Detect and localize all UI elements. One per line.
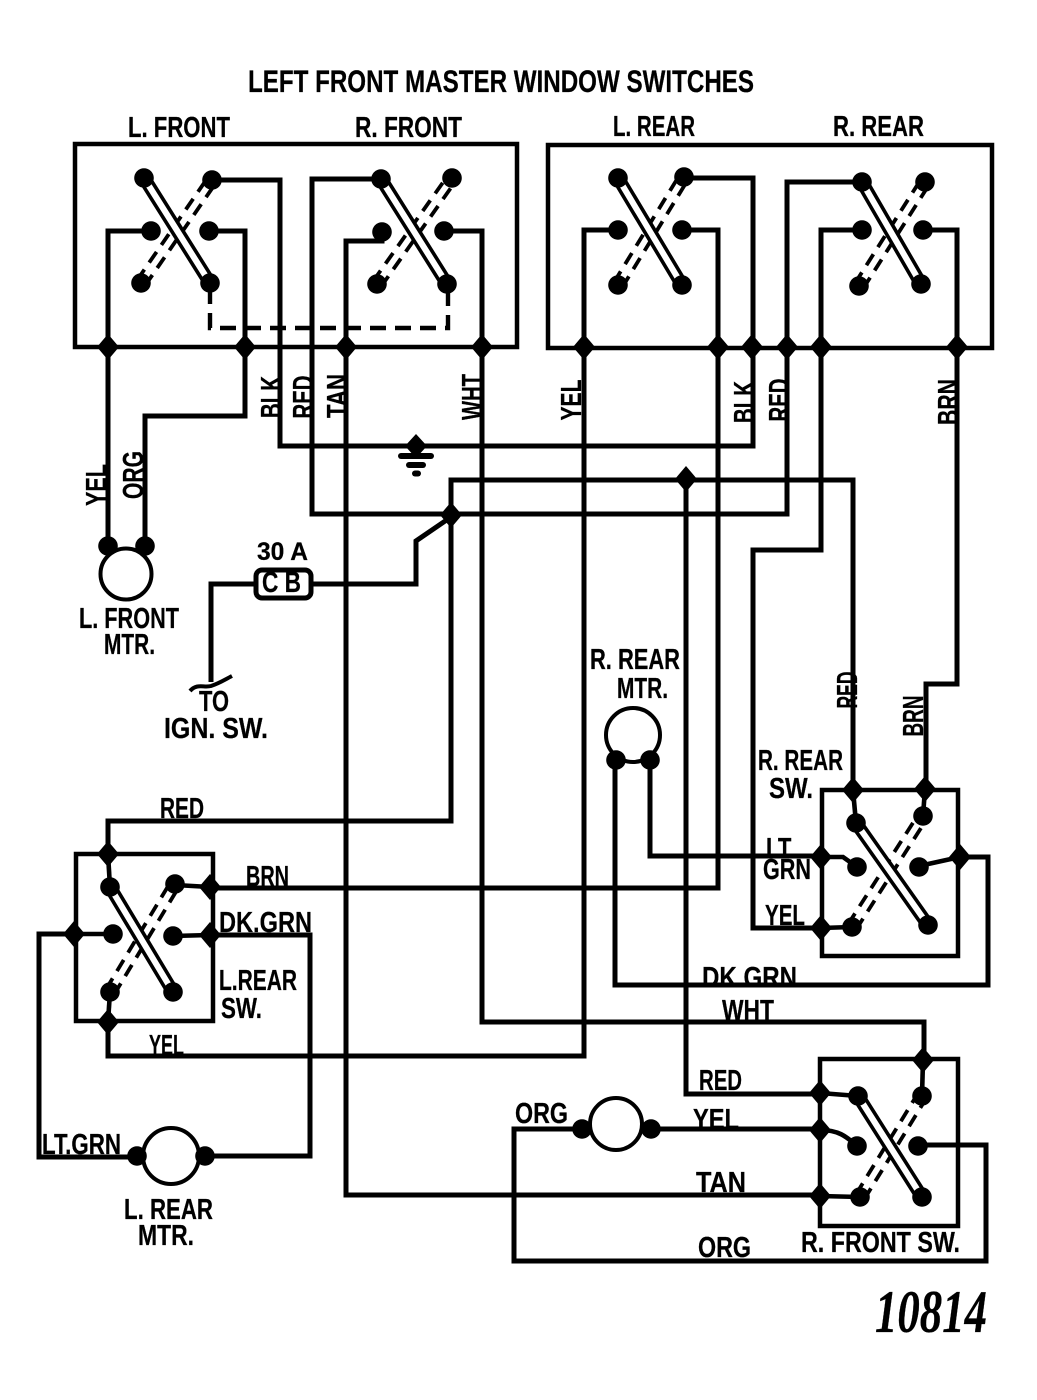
node RED junction at CB <box>440 502 462 528</box>
node L.REAR SW node LT.GRN <box>63 921 85 947</box>
svg-text:R. REAR: R. REAR <box>590 643 680 675</box>
svg-text:L. FRONT: L. FRONT <box>128 112 230 144</box>
svg-text:DK.GRN: DK.GRN <box>219 906 312 938</box>
circuit breaker CB 30A <box>256 567 311 599</box>
wire YEL (R.REAR ML to R.REAR SW BL) <box>753 230 862 928</box>
node L.REAR SW node BRN <box>199 874 221 900</box>
wire CB output to RED junction <box>311 517 451 584</box>
node R.FRONT SW node RED <box>809 1080 831 1106</box>
svg-text:R. REAR: R. REAR <box>833 111 924 143</box>
master switch box (front) <box>75 144 517 347</box>
wire BLK (L.FRONT TR to L.REAR TR via ground run) <box>212 178 753 446</box>
wire YEL (L.REAR ML to L.REAR SW bottom) <box>108 230 618 1056</box>
wire ORG (front motor loop to R.FRONT SW MR) <box>514 1129 986 1261</box>
switch R.REAR <box>849 172 935 296</box>
wire BRN (L.REAR MR to L.REAR SW TR) <box>210 230 718 888</box>
wire stub YEL to R.REAR SW BL <box>821 927 852 928</box>
wire WHT (R.FRONT MR down to R.FRONT SW) <box>444 231 924 1062</box>
switch L.FRONT <box>131 168 222 293</box>
motor R.REAR MTR <box>606 708 660 770</box>
node R.REAR SW node YEL <box>810 915 832 941</box>
wire BRN (R.REAR MR to R.REAR SW TR) <box>923 230 957 790</box>
svg-text:L. REAR: L. REAR <box>613 111 695 143</box>
svg-text:BRN: BRN <box>932 379 964 425</box>
wire RED branch (junction to L.REAR SW TL) <box>108 514 451 856</box>
wire stub RED to R.FRONT SW TL <box>820 1093 858 1096</box>
wire stub DK.GRN to L.REAR SW MR <box>173 935 210 936</box>
node rear rail BRN <box>707 334 729 360</box>
node R.REAR SW node BRN <box>914 776 936 802</box>
node rear rail BLK <box>741 334 763 360</box>
svg-text:C B: C B <box>262 567 301 599</box>
svg-text:MTR.: MTR. <box>617 672 668 704</box>
wire stub DK.GRN to R.REAR SW MR <box>919 857 960 866</box>
svg-text:ORG: ORG <box>117 451 149 499</box>
svg-text:LEFT FRONT MASTER WINDOW SWITC: LEFT FRONT MASTER WINDOW SWITCHES <box>248 63 754 99</box>
node R.FRONT SW node TAN <box>809 1183 831 1209</box>
svg-text:GRN: GRN <box>763 853 811 885</box>
svg-text:SW.: SW. <box>769 772 813 804</box>
node front rail TAN <box>335 334 357 360</box>
wire stub RED to L.REAR SW TL <box>108 854 110 887</box>
node rear rail YEL2 <box>810 334 832 360</box>
wire stub LT.GRN to R.REAR SW ML <box>821 857 857 867</box>
node L.FRONT rail ORG <box>234 334 256 360</box>
svg-text:MTR.: MTR. <box>104 628 155 660</box>
node L.REAR SW node RED <box>97 841 119 867</box>
wire stub WHT to R.FRONT SW TR <box>922 1060 923 1096</box>
ignition wire break squiggle <box>190 676 232 691</box>
wire stub YEL to R.FRONT SW ML <box>820 1130 857 1146</box>
wire feed from ignition switch to CB <box>211 584 256 682</box>
wire stub BRN to L.REAR SW TR <box>175 885 210 887</box>
svg-text:DK.GRN: DK.GRN <box>702 961 797 993</box>
svg-text:R. FRONT: R. FRONT <box>355 112 462 144</box>
svg-text:RED: RED <box>287 376 319 419</box>
switch L.REAR SW (door) <box>100 874 185 1002</box>
svg-text:BLK: BLK <box>728 381 760 423</box>
node L.FRONT rail YEL <box>97 334 119 360</box>
svg-text:YEL: YEL <box>80 464 112 506</box>
svg-text:ORG: ORG <box>515 1097 568 1129</box>
wire RED power (junction up and across to R.REAR SW TL) <box>451 480 853 792</box>
node R.FRONT SW node WHT <box>912 1047 934 1073</box>
node rear rail YEL <box>573 334 595 360</box>
wire TAN (R.FRONT ML down to R.FRONT SW) <box>346 232 820 1195</box>
node rear rail RED <box>776 334 798 360</box>
svg-text:YEL: YEL <box>765 899 805 931</box>
wire stub YEL to L.REAR SW BL <box>108 992 110 1022</box>
svg-text:BLK: BLK <box>255 376 287 418</box>
svg-text:WHT: WHT <box>722 994 774 1026</box>
L.REAR SW box <box>76 854 213 1021</box>
svg-text:ORG: ORG <box>698 1231 751 1263</box>
svg-text:YEL: YEL <box>693 1103 739 1135</box>
node R.FRONT SW node YEL <box>809 1117 831 1143</box>
svg-text:MTR.: MTR. <box>138 1219 194 1251</box>
wire YEL (L.FRONT ML to L.FRONT MTR) <box>108 231 151 548</box>
wire DK.GRN (R.REAR MTR to R.REAR SW MR) <box>615 758 988 985</box>
svg-text:30 A: 30 A <box>257 539 308 566</box>
svg-text:R. FRONT SW.: R. FRONT SW. <box>801 1226 960 1258</box>
svg-text:WHT: WHT <box>456 374 488 420</box>
master switch box (rear) <box>548 145 992 348</box>
R.FRONT SW box <box>820 1059 958 1226</box>
svg-text:TAN: TAN <box>321 374 353 418</box>
motor R.FRONT MTR <box>572 1098 661 1150</box>
svg-text:10814: 10814 <box>875 1279 987 1346</box>
wire LT.GRN (L.REAR SW ML to L.REAR MTR) <box>39 934 139 1157</box>
motor L.FRONT MTR <box>98 536 155 599</box>
svg-text:RED: RED <box>831 672 863 709</box>
node RED junction branch <box>675 466 697 492</box>
svg-text:YEL: YEL <box>149 1029 184 1061</box>
wire dashed coupler (L.FRONT BR to R.FRONT BR) <box>210 288 448 328</box>
node R.REAR SW node LT.GRN <box>810 844 832 870</box>
svg-text:YEL: YEL <box>555 380 587 421</box>
svg-text:SW.: SW. <box>221 992 262 1024</box>
motor L.REAR MTR <box>127 1128 215 1184</box>
svg-text:RED: RED <box>763 379 795 422</box>
wire stub TAN to R.FRONT SW BL <box>820 1196 860 1197</box>
switch R.FRONT <box>367 168 462 294</box>
svg-text:BRN: BRN <box>897 696 929 737</box>
wire YEL (front motor to R.FRONT SW) <box>650 1127 820 1132</box>
wire ORG (L.FRONT MR to L.FRONT MTR) <box>145 231 245 548</box>
node front rail WHT <box>471 334 493 360</box>
wire LT.GRN (R.REAR MTR to R.REAR SW ML) <box>650 758 822 856</box>
wire DK.GRN (L.REAR SW MR to L.REAR MTR) <box>203 935 310 1156</box>
wire stub BRN to R.REAR SW TR <box>923 789 925 816</box>
wire stub RED to R.REAR SW TL <box>853 790 856 823</box>
wire stub LT.GRN to L.REAR SW ML <box>74 932 113 937</box>
node L.REAR SW node YEL <box>97 1009 119 1035</box>
node R.REAR SW node DK.GRN <box>949 844 971 870</box>
node rear rail BRN2 <box>946 334 968 360</box>
R.REAR SW box <box>822 790 958 956</box>
svg-text:RED: RED <box>160 792 204 824</box>
switch L.REAR <box>608 167 694 295</box>
switch R.REAR SW (door) <box>842 806 938 937</box>
ground <box>398 434 434 477</box>
wire RED branch (to R.FRONT SW TL) <box>686 479 822 1094</box>
svg-text:IGN. SW.: IGN. SW. <box>164 712 268 744</box>
node L.REAR SW node DK.GRN <box>199 922 221 948</box>
wire RED (R.FRONT TL to R.REAR TL) <box>312 179 862 514</box>
node R.REAR SW node RED <box>842 777 864 803</box>
switch R.FRONT SW (door) <box>847 1086 932 1207</box>
svg-text:RED: RED <box>699 1064 742 1096</box>
svg-text:TAN: TAN <box>696 1166 746 1198</box>
svg-text:BRN: BRN <box>246 860 289 892</box>
svg-text:LT.GRN: LT.GRN <box>42 1128 121 1160</box>
